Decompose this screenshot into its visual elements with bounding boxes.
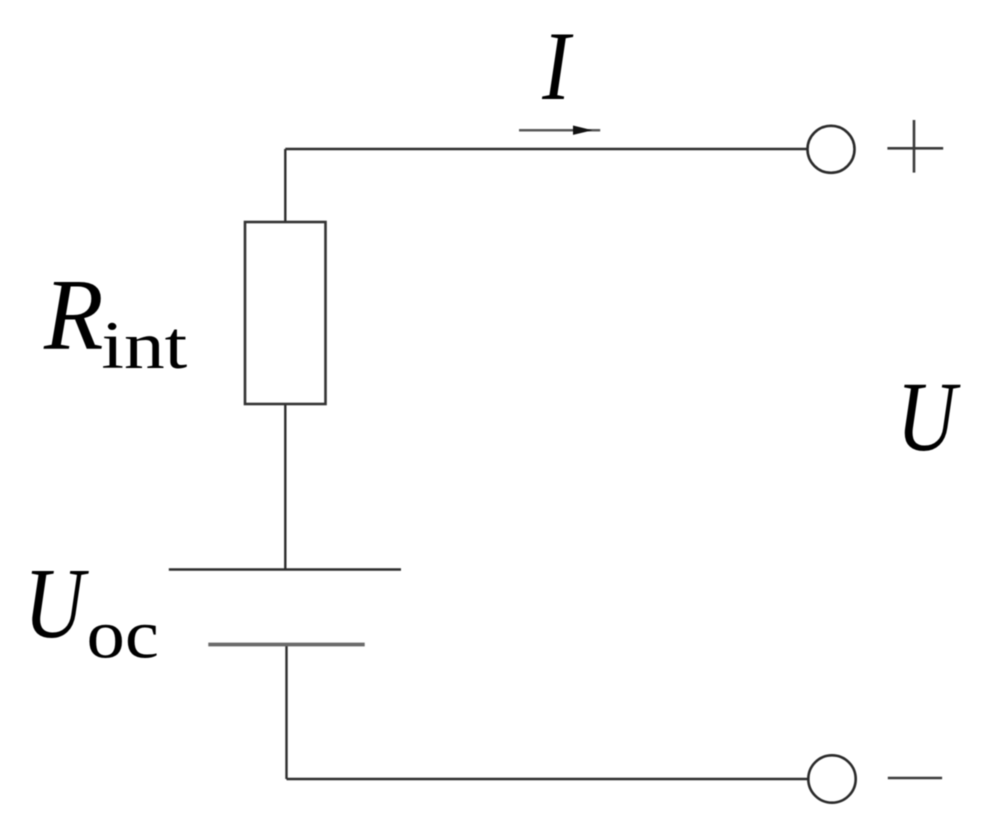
svg-text:I: I bbox=[541, 10, 574, 120]
svg-text:U: U bbox=[24, 548, 89, 659]
svg-text:int: int bbox=[101, 308, 187, 383]
svg-text:R: R bbox=[43, 258, 103, 371]
svg-text:oc: oc bbox=[87, 596, 159, 673]
svg-text:U: U bbox=[897, 360, 962, 471]
